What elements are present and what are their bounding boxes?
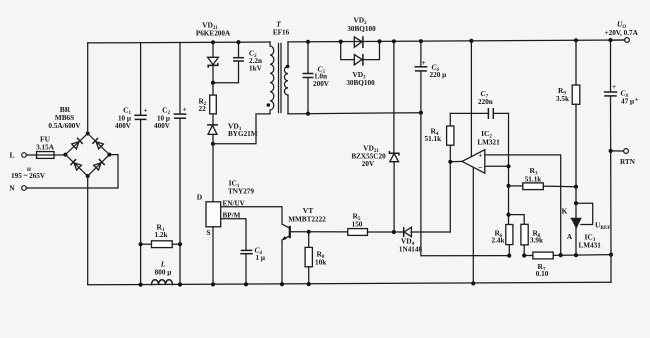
svg-text:L: L: [9, 151, 14, 160]
transformer T EF16: [267, 20, 290, 114]
resistor R8 10k: [305, 232, 326, 284]
svg-text:−: −: [478, 163, 483, 172]
node C2/R1: [178, 242, 182, 246]
resistor R4 51.1k: [425, 113, 454, 161]
diode VD4 1N4148: [394, 227, 450, 253]
svg-text:L: L: [160, 260, 166, 269]
wire inverting input: [485, 165, 509, 167]
wire rail to VD21: [212, 42, 214, 57]
wire VD4 to op-amp output: [449, 162, 451, 232]
node opamp gnd/rail: [471, 281, 475, 285]
bottom rail: [88, 282, 611, 285]
svg-text:30BQ100: 30BQ100: [346, 79, 375, 87]
node R8/rail: [307, 282, 311, 286]
svg-text:N: N: [9, 184, 15, 193]
wire N to bridge right corner: [26, 155, 118, 188]
schottky diode VD3 30BQ100: [341, 41, 380, 86]
svg-text:LM321: LM321: [477, 138, 500, 146]
node RTN branch: [609, 253, 613, 257]
svg-text:+: +: [143, 107, 147, 115]
svg-text:1 μ: 1 μ: [256, 254, 265, 262]
node C6 / secondary rail: [419, 111, 423, 115]
svg-text:+: +: [635, 96, 639, 104]
svg-text:3.15A: 3.15A: [36, 143, 55, 151]
node +input/R7: [559, 253, 563, 257]
svg-text:BYG21M: BYG21M: [228, 130, 258, 138]
svg-text:S: S: [206, 228, 210, 237]
svg-text:1kV: 1kV: [249, 65, 263, 73]
svg-text:30BQ100: 30BQ100: [347, 25, 376, 33]
svg-text:51.1k: 51.1k: [525, 175, 542, 183]
node clamp/C3: [211, 81, 215, 85]
node bottom rail junctions: [139, 283, 143, 287]
node K/REF: [574, 201, 578, 205]
node drain: [211, 142, 215, 146]
inductor L 800u: [152, 260, 173, 285]
svg-text:BP/M: BP/M: [223, 211, 241, 219]
wire secondary ground down: [421, 113, 509, 256]
svg-text:RTN: RTN: [620, 158, 636, 166]
TVS diode VD21 P6KE200A: [196, 21, 231, 68]
svg-text:EF16: EF16: [273, 28, 290, 36]
capacitor C7 220n: [478, 89, 509, 118]
capacitor C6 220u: [415, 39, 446, 113]
svg-text:MMBT2222: MMBT2222: [288, 216, 326, 224]
wire VD1 to drain node: [212, 134, 214, 201]
svg-text:BR: BR: [60, 105, 71, 114]
svg-text:2.4k: 2.4k: [492, 237, 505, 245]
node RTN tap: [609, 149, 613, 153]
svg-text:0.5A/600V: 0.5A/600V: [48, 122, 81, 130]
svg-text:P6KE200A: P6KE200A: [196, 29, 231, 37]
resistor R5 150: [309, 211, 394, 235]
svg-text:MB6S: MB6S: [55, 114, 74, 122]
secondary bottom rail: [288, 113, 421, 114]
resistor R7 0.10 (current sense): [524, 252, 611, 278]
fuse FU 3.15A: [36, 135, 55, 159]
svg-text:+: +: [478, 152, 482, 160]
shunt regulator IC3 LM431: [562, 203, 611, 255]
capacitor C4 1u: [241, 246, 265, 285]
resistor R3 51.1k: [506, 166, 576, 190]
svg-text:0.10: 0.10: [536, 270, 549, 278]
pin EN/UV wire to VT collector: [221, 207, 282, 224]
resistor R8 3.9k: [509, 215, 543, 256]
wire sense rail to bottom rail: [610, 255, 612, 283]
wire drain to primary bottom: [213, 114, 270, 144]
wire R4/C7 row: [450, 112, 488, 114]
node R9/R3: [574, 185, 578, 189]
wire output to apex: [450, 160, 462, 162]
terminal L: [9, 151, 26, 160]
svg-text:47 μ: 47 μ: [621, 97, 634, 105]
capacitor C5 1.0n 200V: [303, 40, 329, 116]
wire non-inverting input: [485, 155, 561, 255]
svg-text:1.2k: 1.2k: [155, 231, 168, 239]
node base: [307, 230, 311, 234]
top rail (secondary side): [288, 40, 625, 42]
svg-text:3.5k: 3.5k: [556, 95, 569, 103]
svg-text:200V: 200V: [313, 80, 330, 88]
svg-text:800 μ: 800 μ: [155, 269, 172, 277]
svg-text:LM431: LM431: [579, 242, 602, 250]
node top rail / clamp: [211, 40, 215, 44]
resistor R6 2.4k: [492, 225, 513, 256]
input u 195~265V label: [11, 165, 46, 180]
wire R2 to VD1: [212, 114, 214, 125]
svg-text:220 μ: 220 μ: [430, 71, 447, 79]
node emitter/rail: [280, 282, 284, 286]
wire C3 bottom link: [213, 82, 239, 84]
wire fuse to bridge: [54, 154, 65, 156]
svg-text:1N4148: 1N4148: [399, 245, 423, 253]
svg-text:22: 22: [199, 105, 207, 113]
op-amp IC2 LM321: [462, 129, 500, 173]
node S/rail: [211, 282, 215, 286]
schottky diode VD2 30BQ100: [339, 16, 382, 48]
svg-text:+: +: [422, 59, 426, 67]
IC U1: IC1 TNY279: [197, 179, 255, 238]
svg-text:K: K: [562, 207, 568, 216]
zener VD21 BZX55C20 20V: [351, 39, 399, 232]
node zener/R5/VD4: [392, 230, 396, 234]
svg-text:20V: 20V: [362, 160, 375, 168]
transistor Q1: VT MMBT2222: [282, 206, 326, 284]
terminal RTN: [611, 149, 636, 166]
wire L to fuse: [26, 154, 36, 156]
svg-text:220n: 220n: [478, 98, 493, 106]
op-amp supply line from +20V rail: [469, 39, 473, 157]
node inverting input: [506, 164, 510, 168]
svg-text:+: +: [183, 105, 187, 113]
wire VD21 to R2: [212, 65, 214, 95]
svg-text:D: D: [197, 193, 203, 202]
svg-text:51.1k: 51.1k: [425, 135, 442, 143]
node R8/sense rail: [522, 253, 526, 257]
svg-text:A: A: [567, 232, 573, 241]
svg-text:3.9k: 3.9k: [530, 237, 543, 245]
svg-text:T: T: [276, 20, 281, 29]
wire bridge bottom to bottom rail: [87, 176, 89, 285]
op-amp ground pin: [472, 167, 474, 283]
pin BP/M wire to C4: [221, 219, 246, 250]
wire C7 to inverting input line: [508, 113, 510, 224]
terminal N: [9, 184, 26, 193]
svg-text:TNY279: TNY279: [228, 187, 254, 195]
pin S wire to bottom rail: [212, 227, 214, 285]
svg-text:400V: 400V: [115, 122, 132, 130]
svg-text:400V: 400V: [154, 122, 171, 130]
svg-text:195 ~ 265V: 195 ~ 265V: [11, 172, 46, 180]
top rail (primary side): [88, 41, 270, 44]
diode VD1 BYG21M: [208, 122, 258, 139]
bridge rectifier BR MB6S 0.5A/600V: [48, 105, 111, 178]
node C1/R1: [139, 242, 143, 246]
terminal U0 +20V 0.7A: [605, 20, 639, 43]
resistor R1 1.2k: [141, 222, 180, 247]
node R6/R8 tap: [506, 213, 510, 217]
wire bridge top to top rail: [87, 43, 89, 134]
resistor R2 22: [199, 95, 217, 114]
capacitor C1 10u 400V: [115, 43, 147, 285]
node C4/rail: [244, 282, 248, 286]
svg-text:150: 150: [352, 220, 363, 228]
svg-text:FU: FU: [40, 135, 51, 144]
svg-text:+: +: [612, 83, 616, 91]
resistor R9 3.5k: [556, 38, 580, 218]
capacitor C3 2.2n 1kV: [234, 40, 263, 83]
capacitor C2 10u 400V: [154, 43, 187, 285]
node LM431 anode/rail: [574, 253, 578, 257]
svg-text:10k: 10k: [315, 258, 326, 266]
node op-amp output: [448, 160, 452, 164]
svg-text:VT: VT: [303, 206, 313, 215]
svg-text:+20V, 0.7A: +20V, 0.7A: [605, 29, 639, 37]
capacitor C8 47u: [605, 38, 639, 255]
node R6/sense rail: [507, 254, 511, 258]
